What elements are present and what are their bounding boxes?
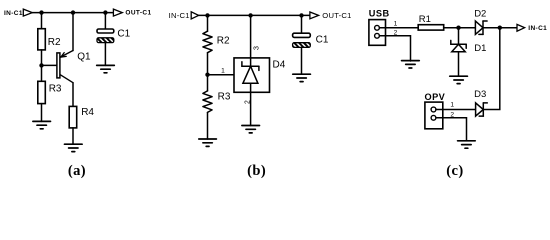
- junction (b) D4 node: [248, 13, 252, 17]
- svg-text:IN-C1: IN-C1: [4, 10, 23, 17]
- svg-text:(c): (c): [446, 163, 463, 179]
- ground (a) left: [33, 121, 51, 128]
- port IN-C1 (c) triangle: [517, 24, 525, 31]
- connector USB box: [369, 20, 386, 46]
- wire R3 top lead: [207, 75, 209, 91]
- wire collector down: [72, 83, 74, 107]
- resistor R3 (b) zigzag: [203, 91, 212, 113]
- junction (c) D1 node: [456, 26, 460, 30]
- zener diode D4: [242, 58, 259, 92]
- svg-text:OUT-C1: OUT-C1: [125, 10, 151, 17]
- svg-text:(a): (a): [68, 163, 86, 179]
- zener diode D3: [476, 103, 488, 116]
- wire R1 to D2/D1: [444, 27, 476, 29]
- transistor Q1: [57, 51, 73, 83]
- wire junction down to D3: [483, 28, 500, 110]
- svg-text:1: 1: [450, 102, 454, 109]
- wire top rail (b): [199, 14, 310, 16]
- resistor R1: [418, 25, 444, 30]
- resistor R2 (a): [38, 29, 46, 50]
- capacitor C1 (a) hatched plate: [97, 38, 114, 43]
- port OUT-C1 (a) triangle: [113, 9, 122, 16]
- OPV pin 2 circle: [431, 115, 436, 120]
- ground (b) under D4: [242, 126, 260, 133]
- junction node B: [71, 10, 75, 14]
- svg-text:C1: C1: [316, 35, 329, 46]
- ground (a) under R4: [65, 144, 83, 151]
- port OUT-C1 (b) triangle: [310, 12, 319, 19]
- zener diode D1: [451, 40, 466, 51]
- wire D4 pin 2 to ground: [250, 92, 252, 125]
- svg-text:USB: USB: [369, 9, 390, 19]
- svg-text:2: 2: [394, 30, 398, 37]
- junction base node: [39, 63, 43, 67]
- ground (c) under OPV: [458, 141, 476, 148]
- junction (b) C1 node: [299, 13, 303, 17]
- ground (b) under R3: [199, 139, 217, 146]
- ground (a) under C1: [97, 65, 115, 72]
- connector OPV box: [425, 102, 443, 129]
- junction (b) mid node: [205, 73, 209, 77]
- wire base: [42, 64, 57, 66]
- capacitor C1 (a) top plate: [97, 29, 114, 33]
- svg-text:C1: C1: [117, 29, 130, 40]
- svg-text:1: 1: [221, 67, 225, 74]
- OPV pin 2 wire: [436, 118, 467, 141]
- junction node C: [103, 10, 107, 14]
- USB pin 1 circle: [375, 25, 380, 30]
- USB pin 1 wire: [379, 27, 418, 29]
- wire top rail (a): [32, 12, 113, 14]
- svg-text:3: 3: [251, 46, 260, 50]
- ground (b) under C1: [293, 74, 311, 81]
- wire C1 (b) column: [301, 15, 303, 33]
- svg-text:R3: R3: [218, 92, 231, 103]
- wire D2 to port: [483, 27, 517, 29]
- junction node A: [39, 10, 43, 14]
- svg-text:OUT-C1: OUT-C1: [322, 11, 351, 20]
- port IN-C1 (b) triangle: [191, 12, 198, 19]
- wire node to pin 1: [208, 74, 235, 76]
- svg-text:2: 2: [450, 111, 454, 118]
- wire R3 to ground: [41, 104, 43, 122]
- ground (c) under USB: [402, 61, 420, 68]
- ground (c) under D1: [450, 76, 468, 83]
- svg-text:D1: D1: [474, 43, 486, 54]
- wire C1 to ground: [104, 43, 106, 66]
- capacitor C1 (b) hatched plate: [293, 43, 311, 48]
- resistor R2 (b) zigzag: [203, 31, 212, 52]
- svg-text:R2: R2: [48, 37, 61, 48]
- wire D1 to ground: [458, 52, 460, 76]
- svg-text:Q1: Q1: [77, 52, 91, 63]
- USB pin 2 wire: [379, 36, 410, 61]
- svg-text:1: 1: [394, 21, 398, 28]
- wire D1 top lead: [458, 28, 460, 45]
- wire R2 top lead: [207, 15, 209, 31]
- svg-text:D4: D4: [273, 59, 286, 70]
- OPV pin 1 wire: [436, 109, 476, 111]
- zener diode D2: [475, 21, 487, 34]
- wire R4 to ground: [72, 128, 74, 144]
- resistor R4: [69, 106, 77, 128]
- wire R2 to base node: [41, 50, 43, 81]
- svg-text:D3: D3: [474, 89, 486, 100]
- component box D4: [234, 58, 270, 92]
- wire D4 pin 3: [250, 15, 252, 58]
- svg-text:R3: R3: [49, 83, 62, 94]
- svg-text:IN-C1: IN-C1: [169, 11, 190, 20]
- svg-text:IN-C1: IN-C1: [528, 25, 547, 32]
- svg-text:R1: R1: [419, 14, 431, 25]
- svg-text:R2: R2: [217, 35, 230, 46]
- junction (c) port node: [498, 26, 502, 30]
- svg-text:D2: D2: [474, 9, 486, 20]
- wire emitter up: [72, 13, 74, 51]
- wire R2 to node: [207, 53, 209, 75]
- capacitor C1 (b) top plate: [293, 33, 311, 37]
- resistor R3 (a): [38, 81, 46, 103]
- wire R3 to ground: [207, 112, 209, 139]
- svg-text:R4: R4: [81, 107, 94, 118]
- port IN-C1 (a) triangle: [23, 9, 32, 16]
- wire R2 column top: [41, 13, 43, 29]
- wire C1 column: [104, 13, 106, 29]
- USB pin 2 circle: [375, 33, 380, 38]
- wire C1 (b) to ground: [301, 47, 303, 74]
- svg-text:(b): (b): [247, 163, 266, 179]
- OPV pin 1 circle: [431, 107, 436, 112]
- svg-text:2: 2: [244, 100, 251, 104]
- junction (b) R2 node: [205, 13, 209, 17]
- svg-text:OPV: OPV: [425, 92, 446, 102]
